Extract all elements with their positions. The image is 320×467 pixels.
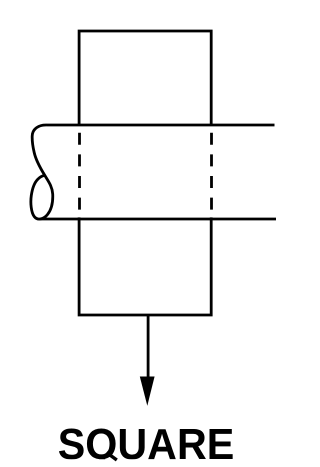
shaft bottom line xyxy=(40,218,277,221)
leader arrow shaft xyxy=(147,315,150,380)
shaft top line xyxy=(47,124,275,127)
hidden edge dashed line left xyxy=(78,133,81,210)
hidden edge dashed line right xyxy=(210,133,213,210)
Q tail stroke xyxy=(107,453,117,461)
square block upper outline (top edge and side edges above shaft) xyxy=(79,31,211,126)
leader arrowhead xyxy=(140,377,155,406)
svg-text:SQUARE: SQUARE xyxy=(58,420,235,467)
square block lower outline (bottom edge and side edges below shaft) xyxy=(79,217,211,315)
label SQUARE xyxy=(58,420,235,467)
shaft break curve (S-break with loop) xyxy=(31,125,53,219)
